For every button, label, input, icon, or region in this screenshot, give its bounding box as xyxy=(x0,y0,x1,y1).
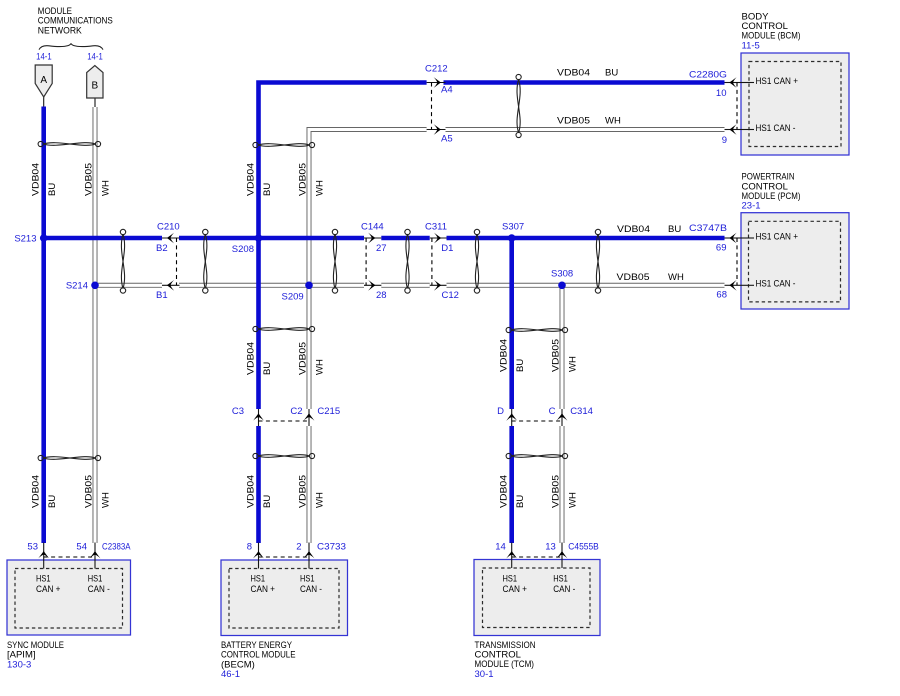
svg-text:BU: BU xyxy=(47,495,58,508)
svg-text:C3: C3 xyxy=(232,406,244,417)
svg-text:WH: WH xyxy=(315,492,326,508)
svg-text:C311: C311 xyxy=(425,222,447,233)
svg-text:VDB05: VDB05 xyxy=(84,163,95,196)
svg-text:C144: C144 xyxy=(361,222,384,233)
svg-text:C: C xyxy=(549,406,556,417)
svg-text:HS1: HS1 xyxy=(251,574,266,585)
svg-text:C2280G: C2280G xyxy=(689,69,727,80)
svg-text:BU: BU xyxy=(262,495,273,508)
svg-text:WH: WH xyxy=(668,272,684,283)
svg-text:VDB05: VDB05 xyxy=(298,475,309,508)
svg-text:HS1: HS1 xyxy=(300,574,315,585)
svg-text:28: 28 xyxy=(376,290,387,301)
svg-text:C4555B: C4555B xyxy=(568,541,599,552)
svg-text:CAN -: CAN - xyxy=(553,584,575,595)
svg-text:S307: S307 xyxy=(502,221,524,232)
svg-text:27: 27 xyxy=(376,243,387,254)
svg-text:C210: C210 xyxy=(157,222,180,233)
svg-text:68: 68 xyxy=(716,290,727,301)
svg-text:130-3: 130-3 xyxy=(7,659,31,670)
svg-text:C2: C2 xyxy=(290,406,302,417)
svg-text:D: D xyxy=(497,406,504,417)
svg-text:14-1: 14-1 xyxy=(36,52,52,63)
svg-text:53: 53 xyxy=(27,541,38,552)
svg-text:HS1 CAN +: HS1 CAN + xyxy=(756,76,799,87)
svg-text:CAN +: CAN + xyxy=(36,584,61,595)
svg-text:HS1: HS1 xyxy=(36,574,51,585)
svg-text:VDB05: VDB05 xyxy=(298,163,309,196)
svg-text:HS1: HS1 xyxy=(88,574,103,585)
svg-text:B: B xyxy=(92,81,99,92)
svg-text:BU: BU xyxy=(47,183,58,196)
svg-text:VDB05: VDB05 xyxy=(617,272,650,283)
svg-text:C212: C212 xyxy=(425,64,448,75)
svg-text:WH: WH xyxy=(315,180,326,196)
svg-text:VDB04: VDB04 xyxy=(246,342,257,375)
svg-text:BU: BU xyxy=(668,224,681,235)
svg-text:S213: S213 xyxy=(14,233,36,244)
svg-text:A: A xyxy=(40,75,47,86)
svg-text:VDB04: VDB04 xyxy=(246,163,257,196)
svg-text:VDB04: VDB04 xyxy=(617,224,650,235)
svg-text:NETWORK: NETWORK xyxy=(38,25,83,36)
svg-text:46-1: 46-1 xyxy=(221,669,240,680)
svg-text:BU: BU xyxy=(262,183,273,196)
svg-text:BU: BU xyxy=(262,362,273,375)
svg-text:HS1: HS1 xyxy=(503,574,518,585)
svg-text:C215: C215 xyxy=(317,406,340,417)
svg-text:S209: S209 xyxy=(282,292,304,303)
svg-text:2: 2 xyxy=(296,541,301,552)
svg-text:C314: C314 xyxy=(570,406,593,417)
svg-text:HS1 CAN -: HS1 CAN - xyxy=(756,123,796,134)
svg-text:BU: BU xyxy=(515,495,526,508)
svg-text:VDB04: VDB04 xyxy=(31,475,42,508)
svg-text:VDB04: VDB04 xyxy=(499,339,510,372)
svg-text:A4: A4 xyxy=(441,85,453,96)
svg-text:69: 69 xyxy=(716,242,727,253)
svg-text:B1: B1 xyxy=(156,290,168,301)
svg-text:VDB05: VDB05 xyxy=(557,116,590,127)
svg-text:14: 14 xyxy=(495,541,506,552)
svg-text:VDB04: VDB04 xyxy=(246,475,257,508)
svg-text:C12: C12 xyxy=(442,290,459,301)
svg-text:VDB04: VDB04 xyxy=(31,163,42,196)
svg-text:30-1: 30-1 xyxy=(475,669,494,680)
svg-text:C3747B: C3747B xyxy=(689,223,727,234)
svg-text:VDB04: VDB04 xyxy=(557,68,590,79)
svg-text:13: 13 xyxy=(545,541,556,552)
svg-text:CAN +: CAN + xyxy=(503,584,528,595)
svg-text:CAN +: CAN + xyxy=(251,584,276,595)
svg-text:54: 54 xyxy=(76,541,87,552)
svg-text:C3733: C3733 xyxy=(317,541,346,552)
svg-text:23-1: 23-1 xyxy=(742,201,761,212)
svg-text:WH: WH xyxy=(568,356,579,372)
svg-text:CAN -: CAN - xyxy=(88,584,110,595)
svg-text:S208: S208 xyxy=(232,244,254,255)
svg-text:11-5: 11-5 xyxy=(742,40,760,51)
svg-text:14-1: 14-1 xyxy=(87,52,103,63)
svg-text:HS1 CAN +: HS1 CAN + xyxy=(756,231,799,242)
svg-text:WH: WH xyxy=(568,492,579,508)
svg-text:HS1: HS1 xyxy=(553,574,568,585)
svg-text:VDB05: VDB05 xyxy=(551,475,562,508)
svg-text:10: 10 xyxy=(716,88,727,99)
svg-text:A5: A5 xyxy=(441,134,453,145)
svg-text:WH: WH xyxy=(101,492,112,508)
svg-text:9: 9 xyxy=(722,135,727,146)
svg-text:VDB05: VDB05 xyxy=(551,339,562,372)
svg-text:VDB04: VDB04 xyxy=(499,475,510,508)
svg-text:HS1 CAN -: HS1 CAN - xyxy=(756,279,796,290)
svg-text:WH: WH xyxy=(605,116,621,127)
svg-text:BU: BU xyxy=(605,68,618,79)
svg-text:WH: WH xyxy=(101,180,112,196)
svg-text:S308: S308 xyxy=(551,269,573,280)
svg-text:C2383A: C2383A xyxy=(102,541,131,552)
svg-text:S214: S214 xyxy=(66,281,88,292)
svg-text:8: 8 xyxy=(247,541,252,552)
svg-text:D1: D1 xyxy=(441,243,453,254)
svg-text:BU: BU xyxy=(515,359,526,372)
svg-text:B2: B2 xyxy=(156,243,168,254)
svg-text:VDB05: VDB05 xyxy=(298,342,309,375)
svg-text:VDB05: VDB05 xyxy=(84,475,95,508)
svg-text:WH: WH xyxy=(315,359,326,375)
svg-text:CAN -: CAN - xyxy=(300,584,322,595)
